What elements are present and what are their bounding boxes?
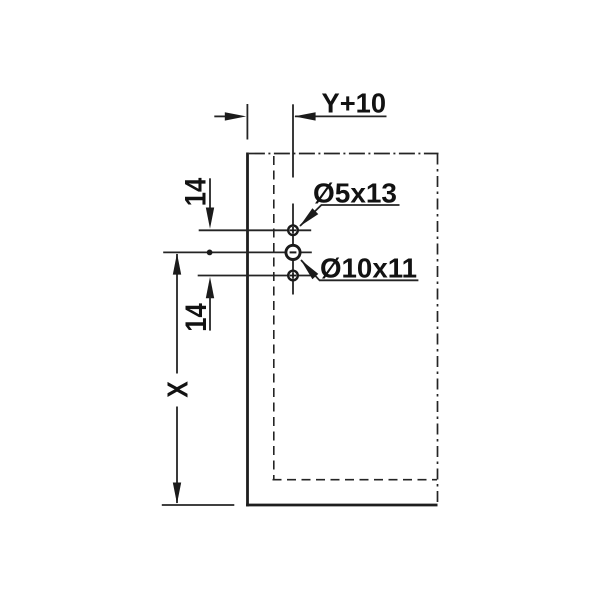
X text halo: [164, 374, 190, 407]
O5x13 leader arrowhead: [300, 208, 319, 226]
svg-text:14: 14: [180, 303, 213, 332]
14 bottom arrowhead: [206, 277, 214, 298]
inner dashed bottom edge: [273, 479, 438, 481]
Y+10 dimension line: [295, 115, 387, 117]
X dimension line: [176, 254, 178, 503]
panel top edge dash-dot: [249, 153, 439, 155]
hole H2 (10mm middle): [286, 245, 300, 259]
hole centerline vertical lower: [292, 199, 294, 295]
svg-text:Ø10x11: Ø10x11: [320, 253, 417, 284]
O5x13 label halo: [288, 178, 400, 204]
panel left edge: [246, 153, 249, 507]
svg-text:X: X: [162, 381, 194, 398]
Y+10 left tail line: [214, 115, 230, 117]
svg-text:Y+10: Y+10: [322, 88, 387, 119]
O10x11 label halo: [316, 255, 421, 278]
inner dashed left edge: [273, 156, 275, 480]
middle extension line: [163, 251, 312, 253]
O10x11 leader arrowhead: [301, 260, 319, 280]
Y+10 left arrowhead: [225, 112, 246, 120]
O10x11 leader line: [301, 260, 320, 280]
14 bottom dimension line: [209, 297, 211, 331]
Y+10 left extension line: [246, 104, 248, 140]
14 top arrowhead: [206, 208, 214, 229]
reference dot: [207, 250, 213, 256]
hole H1 (5mm top): [288, 226, 298, 236]
bottom hole extension line: [198, 275, 312, 277]
X bottom extension line: [162, 504, 235, 506]
hole H3 (5mm bottom): [288, 271, 298, 281]
panel right edge dash-dot: [437, 154, 439, 506]
O5x13 leader line: [300, 205, 322, 226]
hole centerline vertical upper: [292, 104, 294, 178]
Y+10 right arrowhead: [294, 112, 315, 120]
svg-text:14: 14: [180, 177, 213, 206]
O10x11 underline: [319, 279, 418, 281]
14 top dimension line: [209, 178, 211, 210]
X top arrowhead: [173, 253, 181, 274]
panel bottom edge: [246, 504, 437, 507]
O5x13 underline: [321, 204, 400, 206]
top hole extension line: [199, 229, 312, 231]
X bottom arrowhead: [173, 483, 181, 504]
svg-text:Ø5x13: Ø5x13: [313, 178, 397, 209]
